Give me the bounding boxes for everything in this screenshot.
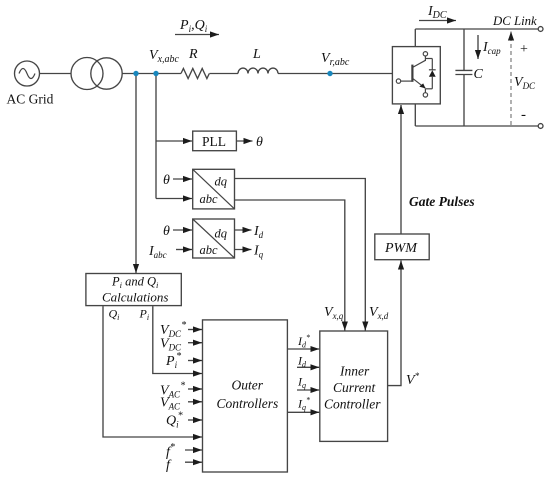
wire node1 down to PQ calc — [135, 76, 137, 273]
outer controllers box — [203, 320, 288, 472]
svg-text:Calculations: Calculations — [102, 290, 168, 305]
P and Q calculations box — [86, 274, 181, 306]
arrow VAC* — [188, 388, 202, 390]
PWM box — [375, 234, 429, 260]
resistor R — [181, 69, 209, 79]
arrow Icap — [477, 35, 479, 59]
PLL box — [193, 131, 237, 151]
svg-text:Controllers: Controllers — [217, 396, 279, 411]
wire Qi to outer — [103, 306, 202, 437]
wire cap branch lower — [463, 75, 465, 127]
inductor L — [238, 68, 278, 73]
wire node2 down — [155, 76, 157, 199]
svg-text:abc: abc — [200, 243, 219, 257]
svg-text:L: L — [252, 47, 261, 62]
svg-text:θ: θ — [256, 135, 263, 150]
dashed VDC measure line — [510, 32, 512, 126]
svg-text:θ: θ — [163, 224, 170, 239]
svg-text:Pi,Qi: Pi,Qi — [179, 18, 208, 34]
svg-text:DC Link: DC Link — [492, 14, 537, 28]
arrow PLL out theta — [236, 140, 252, 142]
svg-text:Inner: Inner — [339, 364, 370, 379]
wire Pi to outer — [153, 306, 202, 373]
arrow Id out — [235, 229, 252, 231]
wire — [278, 73, 392, 75]
abc-dq block 1 — [193, 169, 235, 209]
transistor Q1 — [396, 52, 427, 98]
svg-text:Pi and Qi: Pi and Qi — [111, 275, 159, 291]
svg-text:R: R — [188, 47, 198, 62]
wire — [122, 73, 181, 75]
label Outer Controllers — [217, 378, 279, 412]
wire Id outer to inner — [297, 366, 319, 368]
wire Vx,q out to inner ctrl — [235, 200, 345, 331]
svg-text:dq: dq — [215, 175, 228, 189]
arrow Pi,Qi — [175, 34, 219, 36]
capacitor C — [455, 70, 472, 74]
wire — [40, 73, 72, 75]
arrow Pi* — [188, 360, 202, 362]
wire cap branch — [463, 29, 465, 70]
node dot 2 — [153, 71, 158, 76]
arrow VAC in — [188, 401, 202, 403]
wire abc into dq box1 — [156, 198, 192, 200]
converter box U1 — [392, 47, 440, 104]
wire DC+ rail — [415, 28, 538, 30]
wire gate pulses — [400, 105, 402, 234]
wire Iq outer to inner — [297, 389, 319, 391]
arrow f* — [185, 449, 202, 451]
wire — [210, 73, 239, 75]
svg-text:-: - — [521, 107, 526, 123]
arrow IDC — [419, 20, 456, 22]
arrow VDC* — [188, 329, 202, 331]
svg-text:C: C — [474, 67, 484, 82]
wire branch to PLL — [156, 140, 192, 142]
node Vx,abc dot 1 — [133, 71, 138, 76]
svg-text:AC Grid: AC Grid — [7, 92, 54, 107]
wire DC- rail — [415, 125, 538, 127]
wire V* to PWM — [388, 261, 401, 386]
svg-text:Outer: Outer — [232, 378, 264, 393]
svg-text:+: + — [520, 42, 528, 57]
svg-text:dq: dq — [215, 227, 228, 241]
svg-text:PWM: PWM — [384, 241, 418, 256]
label Inner Current Controller — [324, 364, 381, 412]
abc-dq block 2 — [193, 219, 235, 258]
transformer T1 — [71, 58, 122, 90]
wire Vx,d out to inner ctrl — [235, 179, 366, 331]
wire converter bottom pin — [414, 104, 416, 126]
terminal + — [538, 27, 543, 32]
svg-text:abc: abc — [200, 192, 219, 206]
svg-text:Controller: Controller — [324, 397, 381, 412]
svg-text:θ: θ — [163, 173, 170, 188]
arrow theta in 1 — [173, 178, 192, 180]
wire converter top pin — [414, 29, 416, 47]
arrow theta in 2 — [173, 229, 192, 231]
wire Iq* outer to inner — [287, 411, 319, 413]
diode D1 — [425, 59, 435, 89]
svg-text:Current: Current — [333, 380, 377, 395]
AC source G1 — [15, 61, 40, 86]
arrow f in — [185, 461, 202, 463]
terminal - — [538, 124, 543, 129]
arrow VDC in — [188, 342, 202, 344]
inner current controller box — [320, 331, 388, 441]
arrow Qi* — [188, 419, 202, 421]
wire Id* outer to inner — [287, 348, 319, 350]
svg-text:PLL: PLL — [202, 134, 226, 149]
node Vr,abc dot — [327, 71, 332, 76]
svg-text:Gate Pulses: Gate Pulses — [409, 194, 475, 209]
arrow Iabc in — [176, 249, 192, 251]
arrow Iq out — [235, 249, 252, 251]
